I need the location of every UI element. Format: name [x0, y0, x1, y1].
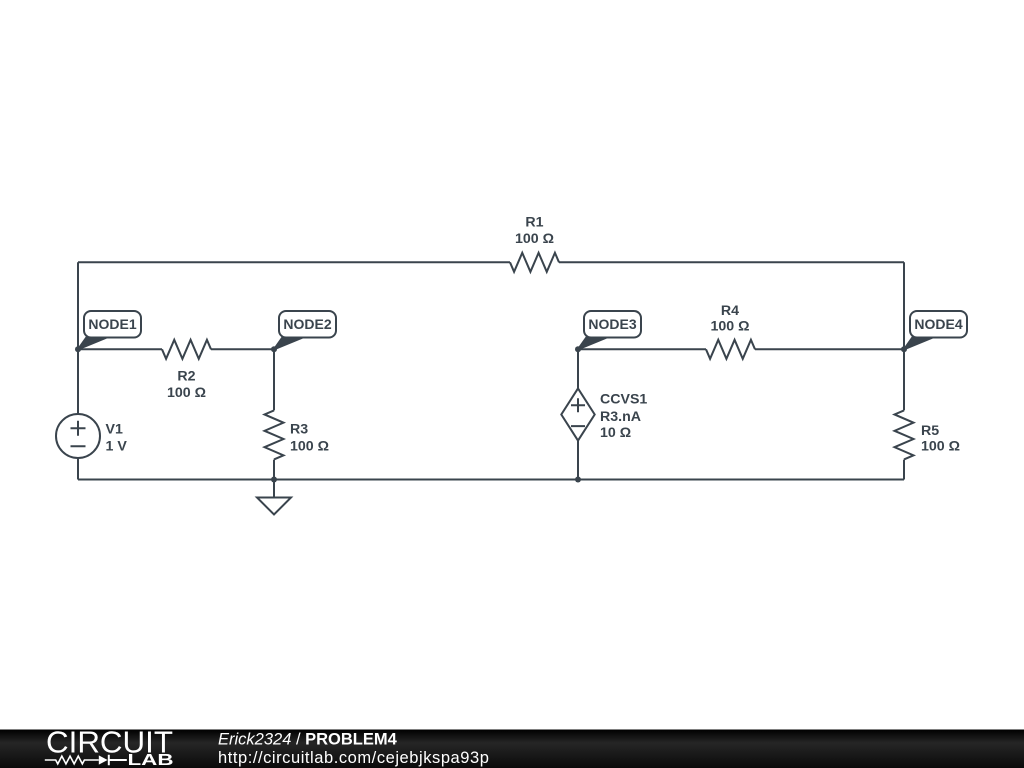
- wire node3 down: [577, 349, 579, 479]
- svg-text:NODE2: NODE2: [283, 316, 331, 332]
- wire left rail: [77, 262, 79, 479]
- voltage source V1: [56, 414, 100, 458]
- junction node3: [575, 346, 581, 352]
- svg-text:Erick2324 / PROBLEM4: Erick2324 / PROBLEM4: [218, 731, 398, 749]
- resistor R5: [895, 410, 914, 459]
- svg-text:100 Ω: 100 Ω: [167, 385, 206, 401]
- label R1: [515, 215, 554, 248]
- wire node1 to node2: [78, 348, 274, 350]
- footer title text: [218, 731, 398, 749]
- label R4: [711, 303, 750, 335]
- svg-text:100 Ω: 100 Ω: [290, 439, 329, 455]
- logo resistor-diode glyph: [45, 755, 127, 765]
- ground: [257, 480, 291, 515]
- node flag NODE3: [578, 311, 641, 349]
- wire right rail: [903, 262, 905, 479]
- resistor R3: [265, 410, 284, 459]
- svg-text:CCVS1: CCVS1: [600, 392, 647, 408]
- footer bar: [0, 730, 1024, 768]
- wire top rail: [78, 261, 904, 263]
- svg-text:R2: R2: [177, 369, 195, 385]
- svg-text:R5: R5: [921, 423, 939, 439]
- logo CIRCUIT text: [46, 726, 173, 760]
- label R5: [921, 423, 960, 455]
- junction node4: [901, 346, 907, 352]
- svg-text:NODE3: NODE3: [588, 316, 636, 332]
- label V1: [106, 422, 128, 455]
- label R3: [290, 422, 329, 455]
- node flag NODE2: [274, 311, 336, 349]
- wire node3 to node4: [578, 348, 904, 350]
- controlled source CCVS1: [561, 388, 594, 440]
- svg-text:100 Ω: 100 Ω: [515, 231, 554, 247]
- label CCVS1: [600, 392, 647, 442]
- svg-text:R4: R4: [721, 303, 739, 319]
- svg-text:100 Ω: 100 Ω: [921, 439, 960, 455]
- resistor R4: [706, 340, 755, 359]
- footer url text: [218, 749, 489, 767]
- svg-text:NODE1: NODE1: [88, 316, 136, 332]
- junction node2: [271, 346, 277, 352]
- label R2: [167, 369, 206, 402]
- wire bottom rail: [78, 479, 904, 481]
- node flag NODE1: [78, 311, 141, 349]
- logo LAB text: [128, 752, 174, 768]
- svg-text:10 Ω: 10 Ω: [600, 425, 631, 441]
- resistor R2: [162, 340, 211, 359]
- svg-text:100 Ω: 100 Ω: [711, 319, 750, 335]
- svg-text:http://circuitlab.com/cejebjks: http://circuitlab.com/cejebjkspa93p: [218, 749, 489, 767]
- junction R3 bottom: [271, 477, 277, 483]
- svg-text:V1: V1: [106, 422, 123, 438]
- junction CCVS1 bottom: [575, 477, 581, 483]
- junction node1: [75, 346, 81, 352]
- resistor R1: [510, 253, 559, 272]
- svg-text:R1: R1: [525, 215, 543, 231]
- svg-text:R3: R3: [290, 422, 308, 438]
- node flag NODE4: [904, 311, 967, 349]
- wire node2 down: [273, 349, 275, 479]
- svg-text:R3.nA: R3.nA: [600, 409, 641, 425]
- svg-text:NODE4: NODE4: [914, 316, 962, 332]
- svg-text:LAB: LAB: [128, 752, 174, 768]
- svg-text:1 V: 1 V: [106, 439, 128, 455]
